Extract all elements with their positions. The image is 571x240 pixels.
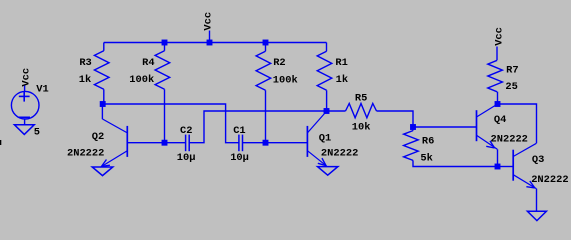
wire	[164, 43, 166, 51]
value 5k	[420, 153, 432, 165]
ground	[14, 125, 34, 135]
label R1	[335, 57, 347, 69]
transistor Q3	[513, 143, 536, 188]
svg-text:5: 5	[34, 126, 40, 138]
label 2N2222	[67, 147, 104, 159]
wire	[497, 149, 499, 166]
svg-text:5k: 5k	[420, 153, 432, 165]
svg-text:100k: 100k	[129, 74, 154, 86]
svg-text:R5: R5	[355, 93, 367, 105]
transistor Q1	[307, 112, 326, 167]
wire	[24, 86, 26, 92]
value 1k	[336, 74, 348, 86]
value 100k	[273, 74, 298, 86]
svg-text:25: 25	[505, 81, 517, 93]
svg-text:2N2222: 2N2222	[531, 174, 568, 186]
svg-text:Vcc: Vcc	[21, 68, 33, 87]
svg-text:Vcc: Vcc	[494, 27, 506, 46]
svg-text:10µ: 10µ	[177, 152, 196, 164]
stray mark	[0, 140, 1, 145]
resistor R1	[317, 51, 332, 90]
wire Q1 base	[266, 142, 308, 144]
label R2	[273, 57, 285, 69]
wire	[265, 90, 267, 142]
label 2N2222	[531, 174, 568, 186]
wire	[326, 90, 328, 111]
svg-text:2N2222: 2N2222	[67, 147, 104, 159]
wire	[24, 119, 26, 125]
svg-text:R6: R6	[422, 135, 434, 147]
wire Vcc rail	[104, 42, 327, 44]
label Q1	[319, 132, 331, 144]
wire	[209, 31, 211, 43]
Vcc label	[494, 27, 506, 46]
wire	[101, 104, 103, 119]
node Q3 base	[495, 164, 501, 170]
wire	[496, 47, 498, 61]
svg-text:2N2222: 2N2222	[491, 133, 528, 145]
wire	[497, 92, 499, 104]
voltage source V1	[11, 91, 39, 119]
node Q1 collector	[324, 108, 330, 114]
value 100k	[129, 74, 154, 86]
wire	[189, 111, 326, 143]
resistor R3	[94, 51, 109, 90]
label Q3	[532, 154, 544, 166]
svg-text:C2: C2	[180, 125, 192, 137]
label R7	[506, 65, 518, 77]
transistor Q4	[477, 104, 498, 149]
node Q1 base	[263, 140, 269, 146]
wire	[103, 104, 239, 143]
svg-text:Q4: Q4	[494, 114, 506, 126]
svg-text:V1: V1	[36, 83, 48, 95]
label R6	[422, 135, 434, 147]
wire	[265, 43, 267, 52]
wire Q2 base	[127, 142, 164, 144]
label 2N2222	[491, 133, 528, 145]
capacitor C2	[186, 135, 190, 152]
ground	[527, 211, 546, 220]
svg-text:Vcc: Vcc	[202, 12, 214, 31]
wire Q4 base	[413, 126, 477, 128]
resistor R2	[256, 51, 271, 90]
wire	[103, 43, 105, 51]
svg-text:R2: R2	[273, 57, 285, 69]
svg-text:R7: R7	[506, 65, 518, 77]
value 5	[34, 126, 40, 138]
svg-text:10k: 10k	[352, 122, 371, 134]
svg-text:100k: 100k	[273, 74, 298, 86]
node R7 bottom	[495, 101, 501, 107]
label R5	[355, 93, 367, 105]
label R3	[79, 57, 91, 69]
Vcc label V1	[21, 68, 33, 87]
node Q2 collector	[100, 101, 106, 107]
ground	[92, 167, 113, 176]
value 10µ	[177, 152, 196, 164]
wire Q3 base	[498, 166, 514, 168]
label Q2	[92, 131, 104, 143]
node R6 top	[410, 124, 416, 130]
value 10µ	[230, 152, 249, 164]
wire	[536, 189, 538, 212]
svg-text:R4: R4	[142, 57, 154, 69]
value 10k	[352, 122, 371, 134]
svg-text:1k: 1k	[79, 74, 91, 86]
svg-text:Q1: Q1	[319, 132, 331, 144]
wire	[103, 89, 105, 104]
svg-text:Q2: Q2	[92, 131, 104, 143]
wire	[498, 104, 537, 143]
transistor Q2	[100, 119, 127, 167]
node	[263, 40, 269, 46]
wire	[413, 160, 498, 166]
svg-text:C1: C1	[233, 125, 245, 137]
wire	[164, 89, 166, 142]
resistor R4	[155, 51, 170, 90]
wire	[243, 142, 266, 144]
svg-text:Q3: Q3	[532, 154, 544, 166]
wire	[327, 110, 346, 112]
svg-text:R1: R1	[335, 57, 347, 69]
resistor R6	[404, 131, 419, 161]
svg-text:R3: R3	[79, 57, 91, 69]
wire	[326, 43, 328, 52]
label C1	[233, 125, 245, 137]
svg-text:10µ: 10µ	[230, 152, 249, 164]
svg-text:2N2222: 2N2222	[321, 148, 358, 160]
label C2	[180, 125, 192, 137]
label V1	[36, 83, 48, 95]
label 2N2222	[321, 148, 358, 160]
wire	[377, 111, 414, 127]
node Q2 base	[162, 140, 168, 146]
value 25	[505, 81, 517, 93]
Vcc label	[202, 12, 214, 31]
value 1k	[79, 74, 91, 86]
capacitor C1	[239, 135, 243, 152]
ground	[318, 167, 338, 176]
label R4	[142, 57, 154, 69]
svg-text:1k: 1k	[336, 74, 348, 86]
resistor R7	[488, 60, 503, 92]
label Q4	[494, 114, 506, 126]
node	[207, 40, 213, 46]
wire	[165, 142, 186, 144]
wire	[412, 127, 414, 131]
resistor R5	[346, 104, 377, 118]
node	[162, 40, 168, 46]
